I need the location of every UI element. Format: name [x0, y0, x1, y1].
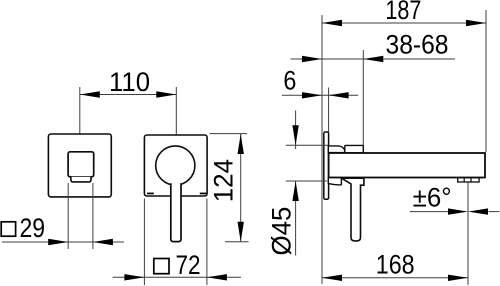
- svg-text:38-68: 38-68: [386, 30, 449, 60]
- dim pm6 line right: [489, 211, 500, 213]
- dim 6 line: [282, 94, 358, 96]
- middle square right slot mark: [200, 193, 207, 195]
- svg-text:±6°: ±6°: [413, 182, 452, 212]
- spout circle: [156, 146, 195, 185]
- spout tip extension line: [485, 10, 487, 152]
- handle lip: [71, 177, 91, 182]
- dim sq72 extension line right: [206, 199, 208, 286]
- dim 38-68 line: [291, 58, 456, 60]
- spout sleeve: [345, 145, 364, 152]
- handle body: [68, 152, 94, 177]
- middle square left slot mark: [147, 193, 154, 195]
- dim 168 arrow right: [448, 275, 468, 281]
- dim 38-68 arrow right (outside, points left at 363.3): [363, 56, 383, 62]
- dim 6 arrow right (points left at 328.6): [329, 92, 349, 98]
- aerator center extension line: [467, 182, 469, 285]
- dim pm6 arrow right (points left at 468): [468, 208, 488, 214]
- dim sq29 square symbol: [1, 222, 15, 236]
- dim 187 arrow right: [466, 20, 486, 26]
- aerator notch 1: [463, 178, 465, 182]
- dim sq72 line: [113, 276, 241, 278]
- lever housing and lever side: [342, 178, 364, 241]
- dim sq72 extension line left: [143, 199, 145, 286]
- dim 187 line: [322, 22, 486, 24]
- dim 110 extension line left (center of left square): [79, 87, 81, 134]
- dim sq72 arrow right (points left at 206.9): [207, 274, 227, 280]
- aerator notch 2: [470, 178, 472, 182]
- dim 124 arrow bottom: [238, 222, 244, 242]
- dim sq72 arrow left (points right at 144.4): [124, 274, 144, 280]
- dim sq72 square symbol: [154, 259, 169, 274]
- dia45 dim line lower: [295, 181, 297, 256]
- dim sq29 arrow left (points right at 68): [48, 239, 68, 245]
- svg-text:168: 168: [376, 250, 415, 280]
- svg-text:Ø45: Ø45: [266, 207, 296, 256]
- dim 110 arrow left: [80, 91, 100, 97]
- wall plate side: [324, 132, 329, 199]
- dim sq29 line: [2, 241, 124, 243]
- spout holder ramp top: [328, 146, 345, 153]
- dim sq29 arrow right (points left at 93): [93, 239, 113, 245]
- dim 6 arrow left (points right at 322): [302, 92, 322, 98]
- svg-text:6: 6: [283, 65, 296, 95]
- dim 168 arrow left: [322, 275, 342, 281]
- dim 124 line: [240, 134, 242, 242]
- lever shaft front: [171, 183, 181, 241]
- dim 110 line: [80, 94, 177, 96]
- svg-text:124: 124: [208, 159, 238, 202]
- dim pm6 line left: [410, 211, 448, 213]
- dim 187 arrow left: [322, 20, 342, 26]
- dim 124 arrow top: [238, 134, 244, 154]
- middle square escutcheon: [144, 135, 207, 196]
- dia45 arrow down: [292, 125, 298, 145]
- svg-text:187: 187: [385, 0, 421, 25]
- svg-text:110: 110: [109, 67, 150, 97]
- left square escutcheon: [48, 134, 111, 197]
- lever housing inner vertical: [340, 178, 342, 185]
- dia45 arrow up: [292, 181, 298, 201]
- dim sq29 extension line right: [92, 183, 94, 249]
- svg-text:72: 72: [176, 250, 201, 280]
- dim sq29 extension line left: [67, 183, 69, 249]
- dia45 dim line upper: [295, 111, 297, 150]
- aerator: [458, 178, 479, 182]
- dia45 extension line bottom: [286, 180, 327, 182]
- dim 6 extension line (plate front): [328, 88, 330, 133]
- dim 124 extension line top: [210, 133, 248, 135]
- spout body: [329, 153, 485, 178]
- dim 38-68 extension line right (sleeve edge): [362, 50, 364, 146]
- dim 110 extension line right (center of middle square): [175, 87, 177, 135]
- dim 110 arrow right: [156, 91, 176, 97]
- svg-text:29: 29: [20, 213, 46, 243]
- dim pm6 arrow left (points right at 468): [448, 208, 468, 214]
- dim 38-68 arrow left (outside, points right at 322): [302, 56, 322, 62]
- dim 168 line: [322, 277, 468, 279]
- wall extension line: [321, 15, 323, 284]
- dim 124 extension line bottom: [225, 241, 249, 243]
- spout holder bottom curve: [328, 178, 341, 185]
- dia45 extension line top: [286, 144, 329, 146]
